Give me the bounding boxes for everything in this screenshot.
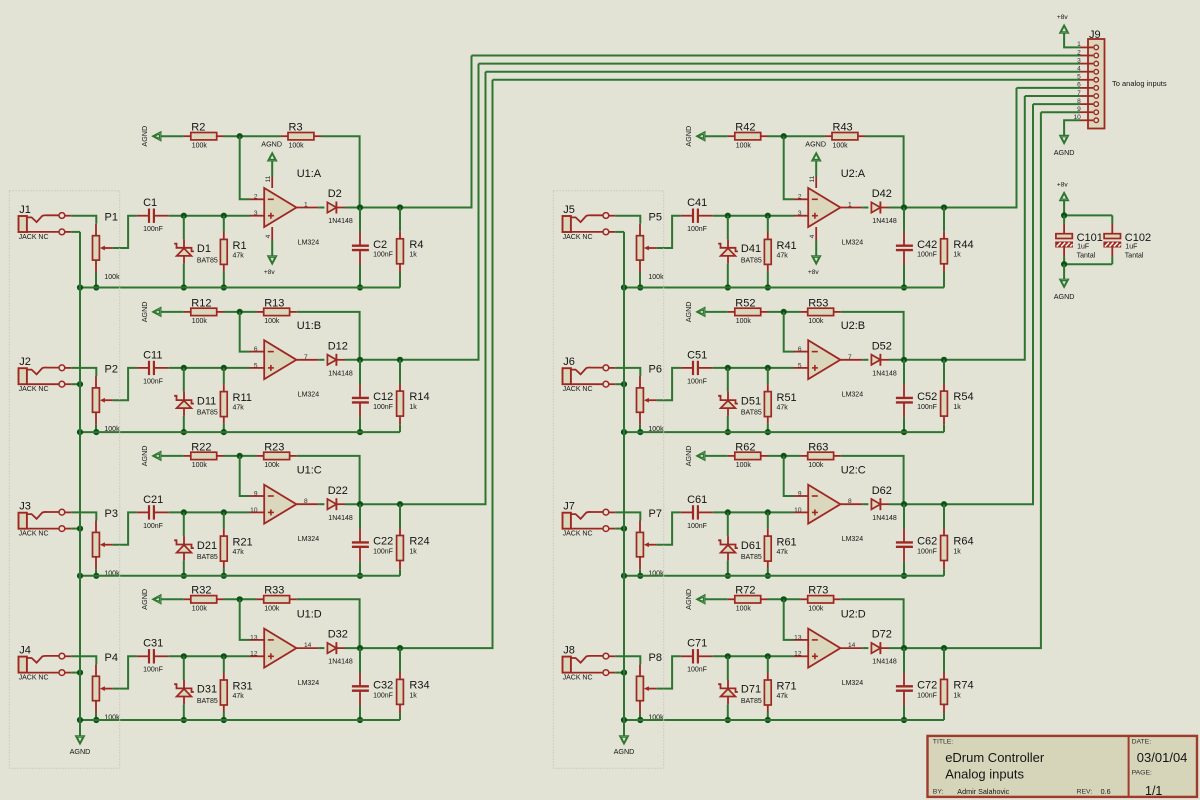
svg-text:1k: 1k [409,404,417,411]
svg-text:12: 12 [250,651,258,658]
junction R11 / ground row [221,429,227,435]
junction D61 / ground row [725,573,731,579]
svg-text:JACK NC: JACK NC [563,675,593,682]
connector J3 (jack) [19,513,27,529]
connector J5 (jack) [563,216,571,232]
svg-text:D52: D52 [872,340,892,352]
wire channel 8 output to J9 pin 9 [1041,111,1080,113]
wire J4 tip to P4 top [71,656,96,664]
junction ground row / bus [621,573,627,579]
+8v flag below U2:A [812,256,821,264]
resistor R71 47k (shunt) [767,656,769,672]
svg-text:JACK NC: JACK NC [19,386,49,393]
wire D52 to J9 bend [889,96,1025,360]
wire U1:A output to D2 [318,207,324,209]
junction D41 / ground row [725,284,731,290]
wire AGND flag to R42 [705,135,728,137]
op-amp U1:D (LM324) [264,629,296,668]
ground row wire channel U1:A [80,287,400,289]
svg-text:R4: R4 [409,239,423,251]
svg-text:C1: C1 [143,197,157,209]
svg-text:D72: D72 [872,629,892,641]
svg-text:P6: P6 [649,364,662,376]
capacitor C31 100nF (series) [137,655,148,657]
svg-text:0.6: 0.6 [1101,787,1111,796]
wire R53 to output node [841,312,904,360]
junction R1 / ground row [221,284,227,290]
svg-text:47k: 47k [777,405,789,412]
junction feedback node / U1:A -input [237,133,243,139]
svg-text:1N4148: 1N4148 [872,370,897,377]
ground row wire channel U2:D [624,719,944,721]
svg-text:03/01/04: 03/01/04 [1137,750,1188,765]
wire C51 to U2:B +input [713,367,794,369]
junction P2 / ground row [93,429,99,435]
resistor R2 100k (feedback to AGND) [184,135,191,137]
junction C72 / ground row [901,717,907,723]
svg-text:1: 1 [304,202,308,209]
wire P4 wiper to C31 [113,656,137,688]
wire C2 to ground row [359,265,361,288]
AGND flag below J9 [1060,135,1069,143]
J9 pin 7 [1080,95,1093,97]
svg-text:C2: C2 [373,239,387,251]
J9 pin 1 [1080,46,1093,48]
svg-text:100nF: 100nF [143,523,163,530]
capacitor C12 100nF (shunt) [359,360,361,384]
ground row wire channel U1:B [80,431,400,433]
resistor R64 1k (load) [943,504,945,528]
svg-text:P7: P7 [649,508,662,520]
wire P8 wiper to C71 [657,656,681,688]
wire U2:A pin 4 to +8v flag [815,227,817,241]
svg-text:R73: R73 [808,585,828,597]
connector J4 (jack) [19,657,27,673]
junction output / R14 [397,357,403,363]
svg-text:BAT85: BAT85 [741,410,762,417]
op-amp U2:B (LM324) [808,340,840,379]
svg-text:JACK NC: JACK NC [19,531,49,538]
svg-text:1k: 1k [409,252,417,259]
svg-text:JACK NC: JACK NC [563,386,593,393]
svg-text:C61: C61 [687,494,707,506]
capacitor C61 100nF (series) [681,511,692,513]
wire channel 2 output to J9 pin 3 [479,63,1081,65]
svg-text:LM324: LM324 [298,536,320,543]
wire R54 to ground row [943,425,945,432]
svg-text:DATE:: DATE: [1132,739,1152,746]
wire feedback node to U2:A -input [784,136,794,199]
junction C2 / ground row [357,284,363,290]
svg-text:LM324: LM324 [298,239,320,246]
junction output / C22 [357,501,363,507]
junction P1 / ground row [93,284,99,290]
wire C41 to U2:A +input [713,215,794,217]
capacitor C51 100nF (series) [681,367,692,369]
resistor R24 1k (load) [399,504,401,528]
resistor R54 1k (load) [943,360,945,384]
svg-text:AGND: AGND [140,302,149,323]
AGND flag at R72 [697,595,705,604]
wire J2 sleeve to ground bus [71,383,80,385]
wire P5 wiper to C41 [657,216,681,248]
svg-text:R23: R23 [264,441,284,453]
resistor R14 1k (load) [399,360,401,384]
svg-text:J4: J4 [19,645,31,657]
diode D72 1N4148 [871,643,880,653]
wire J9 pin 10 to AGND flag [1064,120,1080,136]
wire feedback node to U2:D -input [784,599,794,640]
wire C22 to ground row [359,562,361,576]
junction J4 sleeve / bus [77,670,83,676]
wire U1:D output to D32 [318,647,324,649]
J9 pin 8 [1080,103,1093,105]
junction input line / R31 [221,653,227,659]
svg-text:AGND: AGND [1054,148,1075,157]
wire U2:A output to D42 [862,207,868,209]
diode D11 BAT85 (schottky clamp) [183,368,185,392]
wire D12 to J9 bend [345,64,479,360]
capacitor C21 100nF (series) [137,511,148,513]
wire P3 wiper to C21 [113,512,137,544]
svg-text:D51: D51 [741,395,761,407]
svg-text:LM324: LM324 [842,239,864,246]
junction input line / D11 [181,365,187,371]
resistor R53 100k (feedback) [801,311,808,313]
svg-text:AGND: AGND [140,126,149,147]
AGND flag at R22 [153,451,161,460]
ground row wire channel U2:C [624,575,944,577]
junction D71 / ground row [725,717,731,723]
svg-text:2: 2 [1077,49,1081,56]
svg-text:LM324: LM324 [842,392,864,399]
svg-text:R11: R11 [233,392,252,404]
wire R13 to output node [297,312,360,360]
resistor R1 47k (shunt) [223,216,225,232]
junction R61 / ground row [765,573,771,579]
svg-text:12: 12 [794,651,802,658]
svg-text:R1: R1 [233,240,247,252]
AGND flag at R2 [153,132,161,141]
svg-text:R31: R31 [233,681,253,693]
resistor R61 47k (shunt) [767,512,769,528]
junction C42 / ground row [901,284,907,290]
junction input line / R21 [221,509,227,515]
wire J4 sleeve to ground bus [71,672,80,674]
svg-text:100nF: 100nF [687,226,707,233]
op-amp U2:D (LM324) [808,629,840,668]
svg-text:100k: 100k [808,462,824,469]
wire D51 to ground row [727,416,729,432]
junction R51 / ground row [765,429,771,435]
svg-text:47k: 47k [233,405,245,412]
wire R11 to ground row [223,424,225,433]
svg-text:P8: P8 [649,652,662,664]
junction input line / D51 [725,365,731,371]
svg-text:1N4148: 1N4148 [328,218,353,225]
wire AGND flag to R32 [161,598,184,600]
junction output / R64 [941,501,947,507]
svg-text:U2:D: U2:D [841,609,866,621]
resistor R4 1k (load) [399,208,401,232]
svg-text:6: 6 [1077,82,1081,89]
svg-text:R43: R43 [833,122,853,134]
svg-text:100k: 100k [289,142,305,149]
capacitor C41 100nF (series) [681,215,692,217]
connector J9 body [1088,39,1105,129]
svg-text:D11: D11 [197,395,216,407]
AGND flag at bus bottom [76,736,85,744]
svg-text:R51: R51 [777,392,797,404]
junction input line / D31 [181,653,187,659]
svg-text:R13: R13 [264,297,284,309]
resistor R3 100k (feedback) [281,135,288,137]
junction ground row / bus [77,573,83,579]
op-amp U1:B (LM324) [264,340,296,379]
svg-text:C51: C51 [687,349,707,361]
resistor R63 100k (feedback) [801,455,808,457]
junction input line / D41 [725,213,731,219]
junction output / R44 [941,204,947,210]
wire U1:A pin 4 to +8v flag [271,227,273,241]
svg-text:100nF: 100nF [143,378,163,385]
capacitor C1 100nF (series) [137,215,148,217]
svg-text:BAT85: BAT85 [197,698,218,705]
junction ground row / bus [621,717,627,723]
wire J7 tip to P7 top [615,512,640,520]
svg-text:6: 6 [254,346,258,353]
J9 pin 2 [1080,55,1093,57]
svg-text:R53: R53 [808,297,828,309]
wire C61 to U2:C +input [713,511,794,513]
svg-text:U1:D: U1:D [297,609,322,621]
junction R41 / ground row [765,284,771,290]
svg-text:R52: R52 [735,297,755,309]
svg-text:Tantal: Tantal [1077,253,1096,260]
svg-text:BAT85: BAT85 [741,698,762,705]
resistor R74 1k (load) [943,648,945,672]
wire R51 to ground row [767,424,769,433]
svg-text:J9: J9 [1089,29,1101,41]
svg-text:AGND: AGND [140,446,149,467]
svg-text:+8v: +8v [1057,14,1069,21]
wire channel 7 output to J9 pin 8 [1033,103,1080,105]
svg-text:1: 1 [848,202,852,209]
wire D41 to ground row [727,264,729,288]
svg-text:REV:: REV: [1077,789,1093,796]
junction P6 / ground row [637,429,643,435]
junction feedback node / U2:D -input [781,596,787,602]
wire feedback node to U1:C -input [240,456,250,496]
svg-text:J2: J2 [19,356,31,368]
svg-text:BY:: BY: [933,789,944,796]
wire C1 to U1:A +input [169,215,250,217]
svg-text:1k: 1k [409,692,417,699]
wire C31 to U1:D +input [169,655,250,657]
connector J8 (jack) [563,657,571,673]
wire D42 to J9 bend [889,88,1017,208]
resistor R11 47k (shunt) [223,368,225,384]
svg-text:1uF: 1uF [1077,243,1089,250]
junction R21 / ground row [221,573,227,579]
svg-text:D2: D2 [328,188,342,200]
AGND flag above U2:A [812,153,821,161]
wire J5 tip to P5 top [615,216,640,224]
svg-text:Tantal: Tantal [1125,253,1144,260]
svg-text:100k: 100k [833,142,849,149]
wire +8v node to C102 [1064,214,1112,216]
capacitor C42 100nF (shunt) [903,208,905,232]
svg-text:4: 4 [1077,66,1081,73]
svg-text:2: 2 [254,194,258,201]
junction P5 / ground row [637,284,643,290]
svg-text:C11: C11 [143,349,162,361]
resistor R32 100k (feedback to AGND) [184,598,191,600]
svg-text:100nF: 100nF [143,667,163,674]
resistor R43 100k (feedback) [825,135,832,137]
AGND flag at R62 [697,451,705,460]
svg-text:Analog inputs: Analog inputs [945,766,1024,781]
svg-text:47k: 47k [777,549,789,556]
junction D21 / ground row [181,573,187,579]
svg-text:3: 3 [798,210,802,217]
svg-text:R24: R24 [409,536,429,548]
resistor R23 100k (feedback) [257,455,264,457]
svg-text:8: 8 [848,498,852,505]
svg-text:R32: R32 [191,585,211,597]
wire D21 to ground row [183,560,185,575]
svg-text:D62: D62 [872,485,892,497]
svg-text:1k: 1k [953,548,961,555]
svg-text:LM324: LM324 [842,536,864,543]
wire AGND node to AGND flag [1063,264,1065,280]
svg-text:C32: C32 [373,680,393,692]
wire AGND flag to R22 [161,455,184,457]
wire P2 wiper to C11 [113,368,137,400]
wire P1 bottom to ground row [95,273,97,288]
wire P6 wiper to C51 [657,368,681,400]
junction output / C12 [357,357,363,363]
svg-text:9: 9 [254,490,258,497]
wire channel 6 output to J9 pin 7 [1025,95,1080,97]
svg-text:AGND: AGND [684,302,693,323]
resistor R72 100k (feedback to AGND) [728,598,735,600]
AGND flag at R52 [697,307,705,316]
AGND flag at R32 [153,595,161,604]
svg-text:R33: R33 [264,585,284,597]
svg-text:D22: D22 [328,485,348,497]
svg-text:1N4148: 1N4148 [328,370,353,377]
svg-text:R2: R2 [191,122,205,134]
dashed group box around jacks and pots [9,191,119,769]
resistor R33 100k (feedback) [257,598,264,600]
junction R71 / ground row [765,717,771,723]
svg-text:2: 2 [798,194,802,201]
svg-text:11: 11 [809,175,816,182]
resistor R51 47k (shunt) [767,368,769,384]
resistor R73 100k (feedback) [801,598,808,600]
svg-text:6: 6 [798,346,802,353]
svg-text:AGND: AGND [684,446,693,467]
wire C102 bottom to AGND node [1064,263,1112,265]
junction output / R34 [397,645,403,651]
junction input line / R61 [765,509,771,515]
svg-text:47k: 47k [233,252,245,259]
J9 pin 4 [1080,71,1093,73]
svg-text:D41: D41 [741,243,761,255]
svg-text:13: 13 [250,634,258,641]
junction input line / R1 [221,213,227,219]
svg-text:7: 7 [304,354,308,361]
svg-text:D32: D32 [328,629,348,641]
wire J3 tip to P3 top [71,512,96,520]
wire +8v flag to J9 pin 1 [1064,32,1080,47]
svg-text:R63: R63 [808,441,828,453]
svg-text:R3: R3 [289,122,303,134]
svg-text:C31: C31 [143,638,163,650]
svg-text:D42: D42 [872,188,892,200]
wire AGND flag to R72 [705,598,728,600]
svg-text:BAT85: BAT85 [197,554,218,561]
wire AGND flag to R52 [705,311,728,313]
junction output / C32 [357,645,363,651]
svg-text:100k: 100k [192,318,208,325]
wire U1:C output to D22 [318,503,324,505]
potentiometer P3 100k [95,521,97,533]
svg-text:100nF: 100nF [917,404,937,411]
wire R63 to output node [841,456,904,504]
junction C62 / ground row [901,573,907,579]
svg-text:1k: 1k [409,548,417,555]
junction C32 / ground row [357,717,363,723]
+8v flag above C101 [1060,192,1069,200]
resistor R41 47k (shunt) [767,216,769,232]
svg-text:3: 3 [1077,57,1081,64]
svg-text:U1:B: U1:B [297,320,321,332]
wire U1:B output to D12 [318,359,324,361]
wire J1 sleeve to ground bus [71,231,80,233]
svg-text:AGND: AGND [684,589,693,610]
svg-text:AGND: AGND [261,139,282,148]
svg-text:R21: R21 [233,537,253,549]
title block frame [928,736,1198,797]
wire D32 to J9 bend [345,80,493,648]
svg-text:LM324: LM324 [842,680,864,687]
capacitor C52 100nF (shunt) [903,360,905,384]
junction D31 / ground row [181,717,187,723]
potentiometer P5 100k [639,224,641,236]
wire J8 tip to P8 top [615,656,640,664]
junction output / R4 [397,204,403,210]
svg-text:C101: C101 [1077,232,1103,244]
connector J6 (jack) [563,368,571,384]
wire C71 to U2:D +input [713,655,794,657]
svg-text:100k: 100k [264,606,280,613]
junction output / R74 [941,645,947,651]
junction ground row / bus [77,284,83,290]
svg-text:C12: C12 [373,391,393,403]
wire R42 to R43 [768,135,825,137]
svg-text:100k: 100k [192,606,208,613]
svg-text:1N4148: 1N4148 [872,218,897,225]
svg-text:100k: 100k [736,606,752,613]
capacitor C22 100nF (shunt) [359,504,361,528]
capacitor C101 1uF tantalum [1063,215,1065,224]
wire R31 to ground row [223,712,225,720]
wire D61 to ground row [727,560,729,575]
junction feedback node / U2:B -input [781,309,787,315]
svg-text:1N4148: 1N4148 [872,659,897,666]
